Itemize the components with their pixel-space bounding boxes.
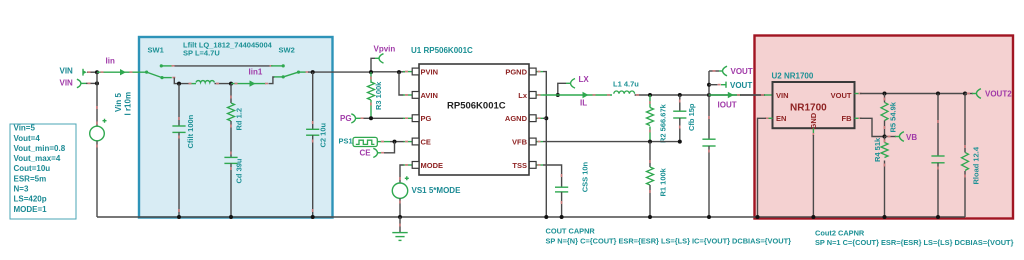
node Vpvin probe [371,45,395,73]
svg-text:VFB: VFB [512,137,528,146]
wire source to ground rail [96,141,98,217]
wire to SW2 [269,77,275,84]
inductor Lfilt [196,81,214,83]
svg-text:VOUT: VOUT [731,67,753,76]
svg-text:Cfb 15p: Cfb 15p [687,103,696,131]
svg-text:LX: LX [579,75,590,84]
current probe Iin [97,57,147,76]
wire VFB line [543,141,680,143]
svg-text:Vout=4: Vout=4 [14,134,41,143]
svg-text:VIN: VIN [60,79,74,88]
voltage source Vin 5 [90,92,133,141]
resistor R5 54.9k [881,94,898,139]
resistor Rd 1.2 [228,84,244,158]
wire U2 GND down [811,128,815,219]
node CE terminal [360,148,385,157]
junction C2 [311,70,315,74]
node LX probe [558,75,590,95]
svg-text:Rd 1.2: Rd 1.2 [235,108,244,131]
wire SW1 to Lfilt path [172,77,175,79]
svg-text:Lx: Lx [518,91,528,100]
svg-text:VOUT: VOUT [730,81,752,90]
resistor R1 100k [647,142,668,219]
wire Lfilt to Rd junction [215,83,232,85]
svg-text:VOUT2: VOUT2 [985,90,1012,99]
svg-text:IOUT: IOUT [718,100,737,109]
junction Cfilt [177,82,181,86]
wire VIN2 to junction [86,82,98,84]
junction Rd [229,82,233,86]
regulator U2 NR1700 body [773,82,855,130]
svg-text:GND: GND [809,112,818,129]
capacitor Cout2 (subckt) [931,94,944,220]
svg-text:IL: IL [580,98,587,107]
switch SW2 [274,71,309,79]
svg-text:Vout_min=0.8: Vout_min=0.8 [14,144,66,153]
ground [392,217,407,240]
pins right U1 [505,67,543,169]
capacitor CSS 10n [543,161,590,219]
svg-text:Cout2 CAPNR: Cout2 CAPNR [815,228,865,237]
node VOUT probe (purple) [709,66,753,95]
output block box [755,36,1014,219]
node VB probe [885,132,918,142]
junction main/R3 [369,70,373,74]
svg-text:MODE=1: MODE=1 [14,205,48,214]
svg-text:PS1: PS1 [339,137,353,146]
junction VIN [95,70,99,74]
node VIN terminal (teal) [60,67,87,76]
wire VOUT rail [855,92,968,96]
svg-text:Cfilt 100n: Cfilt 100n [186,114,195,148]
wire L1 to U2 VIN [635,94,765,96]
svg-text:L1 4.7u: L1 4.7u [613,79,639,88]
svg-text:SW2: SW2 [279,46,295,55]
svg-text:COUT CAPNR: COUT CAPNR [546,227,596,236]
svg-text:AGND: AGND [505,114,528,123]
node VIN input terminal (purple) [60,79,87,88]
svg-text:I r10m: I r10m [124,92,133,116]
input filter block box [139,37,333,218]
svg-text:R3 100k: R3 100k [374,81,383,110]
svg-text:CE: CE [360,149,372,158]
svg-text:VS1 5*MODE: VS1 5*MODE [412,186,462,195]
svg-text:VIN: VIN [776,91,789,100]
current probe IL [543,92,612,108]
wire junction down to source [96,72,98,126]
svg-text:R4 51k: R4 51k [873,137,882,162]
wire FB to divider [855,117,884,136]
wire PGND down [543,72,546,217]
wire AGND to PGND riser [543,117,546,119]
parameter text box [10,124,76,219]
svg-text:AVIN: AVIN [421,91,438,100]
svg-text:Iin: Iin [106,57,115,66]
capacitor COUT (subckt) [702,95,715,219]
svg-text:VIN: VIN [60,67,74,76]
svg-text:PVIN: PVIN [421,67,439,76]
svg-text:U1 RP506K001C: U1 RP506K001C [411,46,473,55]
current probe IOUT [709,92,741,110]
junction Lx [556,93,560,97]
capacitor Cfb 15p [673,95,696,142]
svg-text:C2 10u: C2 10u [319,122,328,147]
svg-text:LS=420p: LS=420p [14,195,47,204]
svg-text:CSS 10n: CSS 10n [581,161,590,192]
capacitor Cd 39u [224,152,243,220]
capacitor C2 10u [306,72,327,219]
svg-text:EN: EN [776,114,786,123]
resistor R3 100k [368,72,384,118]
resistor R4 51k [873,137,888,220]
wire IOUT to U2 [740,94,765,96]
resistor Rload 12.4 [962,94,981,218]
svg-text:RP506K001C: RP506K001C [447,101,506,112]
resistor R2 566.67k [647,95,668,143]
wire PS1 to CE pin [390,141,404,143]
inductor L1 4.7u [614,91,635,94]
node VOUT2 terminal [965,89,1012,99]
capacitor Cfilt 100n [172,84,195,219]
svg-text:R1 100k: R1 100k [659,167,668,196]
wire PG to pin [364,117,404,119]
svg-text:CE: CE [421,137,431,146]
svg-text:N=3: N=3 [14,185,29,194]
pins left U1 [403,67,443,169]
svg-text:Rload 12.4: Rload 12.4 [972,146,981,184]
current probe Iin1 [231,67,268,87]
svg-text:R5 54.9k: R5 54.9k [889,101,898,132]
wire AVIN riser [399,72,404,95]
svg-text:PG: PG [421,114,432,123]
svg-text:VB: VB [906,133,917,142]
source VS1 5*MODE [392,165,461,219]
wire VIN to junction [87,71,97,73]
svg-text:SP N={N} C={COUT} ESR={ESR} LS: SP N={N} C={COUT} ESR={ESR} LS={LS} IC={… [546,236,792,245]
svg-text:MODE: MODE [421,161,444,170]
svg-text:Cout=10u: Cout=10u [14,164,51,173]
svg-text:FB: FB [842,114,853,123]
bypass wire top [161,64,285,67]
svg-text:SW1: SW1 [148,46,164,55]
svg-text:TSS: TSS [512,161,527,170]
svg-text:ESR=5m: ESR=5m [14,174,47,183]
svg-text:PG: PG [340,114,352,123]
svg-text:U2 NR1700: U2 NR1700 [772,71,814,80]
IC U1 RP506K001C body [419,64,529,175]
svg-text:Vin 5: Vin 5 [114,92,123,112]
node VOUT terminal (teal) [707,81,752,90]
node PG terminal [340,114,364,123]
wire EN to ground [756,117,773,219]
svg-text:R2 566.67k: R2 566.67k [659,103,668,143]
svg-text:Cd 39u: Cd 39u [235,158,244,183]
switch SW1 [145,64,172,79]
svg-text:SP L=4.7U: SP L=4.7U [183,49,220,58]
svg-text:VOUT: VOUT [831,91,852,100]
ground rail [97,216,965,218]
svg-text:PGND: PGND [505,67,527,76]
svg-text:Vpvin: Vpvin [374,45,396,54]
svg-text:NR1700: NR1700 [790,102,827,113]
wire CE to junction [384,142,395,153]
svg-text:Vout_max=4: Vout_max=4 [14,154,61,163]
wire SW2 to box edge [308,71,371,73]
svg-text:SP N=1 C={COUT} ESR={ESR} LS={: SP N=1 C={COUT} ESR={ESR} LS={LS} DCBIAS… [815,238,1014,247]
svg-text:Iin1: Iin1 [249,67,263,76]
pulse source PS1 [339,137,391,147]
svg-text:Vin=5: Vin=5 [14,124,36,133]
